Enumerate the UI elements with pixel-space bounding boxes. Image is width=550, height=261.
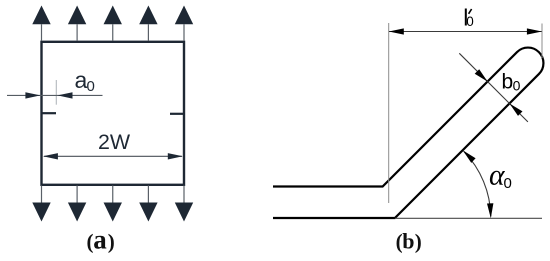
svg-text:a: a (93, 224, 107, 254)
bottom load arrow 5 head (175, 203, 193, 222)
l0 dimension arrowhead left (389, 28, 404, 34)
bottom load arrow 3 head (104, 203, 122, 222)
top load arrow 2 head (68, 6, 86, 25)
top load arrow 1 head (32, 6, 50, 25)
2W dimension arrowhead left (43, 153, 58, 159)
label l0prime: prime tick (469, 9, 472, 14)
svg-text:): ) (415, 229, 422, 253)
top load arrow 5 head (175, 6, 193, 25)
svg-text:0: 0 (87, 78, 95, 95)
l0 dimension line (389, 31, 542, 33)
bottom load arrow 4 head (139, 203, 157, 222)
a0 dimension line (7, 94, 103, 96)
svg-text:0: 0 (466, 14, 474, 29)
svg-text:b: b (502, 70, 514, 93)
right edge crack (170, 113, 184, 115)
svg-text:): ) (108, 229, 115, 253)
a0 dimension arrowhead pointing left at crack tip (58, 92, 73, 98)
l0 dimension arrowhead right (527, 28, 542, 34)
2W dimension arrowhead right (168, 153, 183, 159)
bent strip outline with rounded end cap (273, 48, 543, 218)
l0 right extension line at cap end (541, 24, 543, 59)
top load arrow 4 head (139, 6, 157, 25)
top load arrow 3 head (104, 6, 122, 25)
horizontal baseline reference line (395, 217, 542, 219)
alpha0 arc arrowhead upper (touches strip lower edge) (463, 150, 476, 163)
bottom load arrow 5 shaft (183, 186, 185, 203)
svg-text:b: b (402, 228, 414, 253)
left edge crack (42, 112, 57, 114)
svg-text:2W: 2W (98, 130, 131, 154)
b0 dimension arrowhead upper (points to top edge of strip) (475, 69, 488, 81)
2W dimension line (44, 155, 182, 157)
a0 crack-tip extension line (55, 80, 57, 105)
bottom load arrow 2 head (68, 203, 86, 222)
alpha0 arc arrowhead lower (touches baseline) (487, 203, 493, 218)
top load arrow 1 shaft (41, 24, 43, 41)
svg-text:0: 0 (504, 175, 512, 192)
top load arrow 3 shaft (112, 24, 114, 41)
svg-text:0: 0 (513, 77, 521, 93)
top load arrow 2 shaft (76, 24, 78, 41)
l0 left extension line at bend (388, 23, 390, 203)
top load arrow 5 shaft (183, 24, 185, 41)
top load arrow 4 shaft (147, 24, 149, 41)
alpha0 angle arc (464, 152, 491, 217)
bottom load arrow 2 shaft (76, 186, 78, 203)
bottom load arrow 4 shaft (147, 186, 149, 203)
bottom load arrow 1 head (32, 203, 50, 222)
b0 dimension line crossing the strip (459, 53, 528, 122)
a0 dimension arrowhead pointing right at plate edge (25, 92, 40, 98)
b0 dimension arrowhead lower (points to bottom edge of strip) (510, 104, 523, 116)
square plate outline (42, 42, 185, 185)
bottom load arrow 1 shaft (41, 186, 43, 203)
bottom load arrow 3 shaft (112, 186, 114, 203)
